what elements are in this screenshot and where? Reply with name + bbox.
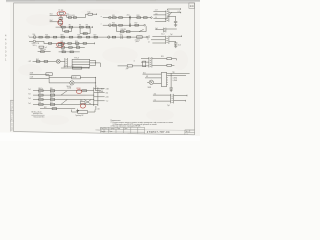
transformer T8 winding right (173, 94, 175, 104)
wire stub a (30, 73, 50, 75)
transformer T8 core ticks (172, 95, 173, 103)
svg-text:4Т0Р07-787-04: 4Т0Р07-787-04 (147, 130, 170, 134)
svg-text:Изм: Изм (101, 128, 104, 130)
resistor R12 (119, 17, 123, 19)
transformer T7 winding left (148, 57, 150, 68)
svg-text:≈15В: ≈15В (105, 88, 109, 90)
wire vertical node B (60, 23, 62, 27)
wire ML vertical (48, 75, 50, 83)
wire K2 pin bus (95, 60, 97, 65)
wire T8 sec1 (174, 95, 187, 97)
wire T3 pin2 (153, 14, 166, 16)
resistor R41 (70, 51, 73, 53)
svg-text:Вх2: Вх2 (50, 20, 53, 22)
resistor R44 (39, 90, 43, 92)
ground GND3 (174, 46, 177, 48)
capacitor C6 (174, 43, 177, 44)
svg-text:реле: реле (136, 41, 139, 43)
wire T8 sec2 (174, 100, 186, 102)
svg-text:R52: R52 (44, 107, 47, 109)
svg-text:Тр3: Тр3 (167, 105, 170, 107)
svg-text:R50: R50 (38, 102, 41, 104)
svg-text:№ докум.: № докум. (109, 128, 115, 130)
svg-text:≈6,3: ≈6,3 (105, 92, 108, 94)
svg-text:≈36: ≈36 (155, 17, 158, 19)
wire T6 pin1 (152, 36, 165, 38)
svg-text:Подп. и дата: Подп. и дата (12, 100, 14, 110)
terminal tick row3 (92, 26, 94, 28)
lamp H1 (56, 60, 60, 64)
svg-text:РЭС-9: РЭС-9 (74, 58, 79, 60)
resistor R16 (119, 24, 123, 26)
wire row3 bus (56, 26, 93, 28)
label dash (31, 114, 44, 116)
wire T7 sec1 (152, 58, 167, 60)
wire T3 pin3 (153, 18, 166, 20)
wire F5 stub (29, 40, 33, 42)
resistor R8 (86, 26, 90, 28)
stamp table top line (100, 126, 144, 128)
resistor R56 (82, 90, 87, 92)
svg-text:R6: R6 (69, 25, 71, 27)
svg-text:R47 1к: R47 1к (50, 93, 55, 95)
svg-text:≈127: ≈127 (155, 10, 158, 12)
red annotation ellipse A (57, 11, 66, 17)
svg-text:прибора сети: прибора сети (33, 113, 42, 115)
resistor R10 (83, 33, 87, 35)
svg-text:560: 560 (80, 100, 83, 102)
capacitor C4 (174, 21, 177, 22)
relay K1 (137, 36, 143, 38)
resistor R45 (50, 90, 54, 92)
resistor R36 (61, 47, 64, 49)
resistor R37 (69, 47, 72, 49)
wire M2 row2 (36, 40, 45, 42)
terminal tick T8 sec1 (186, 95, 188, 97)
wire T6 sec2 (169, 42, 176, 43)
wire B1 row4 (33, 103, 94, 105)
svg-text:R23: R23 (61, 35, 64, 37)
resistor R13 (137, 17, 141, 19)
frame left border (13, 3, 15, 132)
wire T7 pin2 (141, 61, 149, 63)
wire R54 out (172, 64, 175, 66)
arrow tap T3 (165, 12, 172, 20)
connector XP1 left rail (93, 87, 95, 106)
svg-text:≈1,2: ≈1,2 (153, 99, 156, 101)
transformer T7 core ticks (150, 58, 151, 66)
gray scanner edge band top (6, 0, 200, 2)
resistor R51 (50, 103, 54, 105)
wire T3 sec1 (169, 12, 181, 14)
wire T3 pin4 (155, 21, 166, 23)
svg-text:Положение Вкл: Положение Вкл (33, 117, 44, 119)
wire T3 pin1 (153, 10, 166, 12)
svg-text:R42: R42 (36, 59, 39, 61)
capacitor C2 (128, 16, 130, 20)
capacitor C2 plate2 (130, 16, 132, 20)
svg-text:R15: R15 (112, 23, 115, 25)
wire bracket2 drop (80, 28, 90, 34)
switch box S5 (78, 111, 88, 114)
wire T3 sec2 (169, 16, 176, 21)
resistor R33 (68, 42, 71, 44)
wire R53 drop (176, 59, 178, 61)
svg-text:Тумблер В2: Тумблер В2 (75, 115, 83, 117)
wire M2 row1 right (104, 36, 146, 38)
switch box S1 (46, 73, 52, 76)
svg-text:Разраб.: Разраб. (101, 131, 106, 133)
choke L2 (127, 65, 132, 67)
resistor R27 (94, 36, 97, 38)
resistor R46 (39, 94, 43, 96)
svg-text:≈6,3: ≈6,3 (153, 93, 156, 95)
resistor R48 (39, 99, 43, 101)
wire T7 pin3 stub (118, 65, 128, 67)
svg-text:прд: прд (172, 72, 174, 74)
fuse F1 (33, 36, 36, 39)
lamp H1 cross (57, 60, 60, 63)
svg-text:R39 10к: R39 10к (40, 49, 46, 51)
svg-text:R2 1,0 R3: R2 1,0 R3 (68, 15, 75, 17)
resistor R1b (88, 13, 92, 15)
wire cross X b (84, 100, 91, 105)
svg-text:20,0: 20,0 (178, 45, 181, 47)
wire M2 row1 (29, 36, 104, 38)
svg-text:МЛТ: МЛТ (83, 33, 86, 35)
resistor R18 (120, 31, 124, 33)
transformer T6 core ticks (166, 37, 167, 42)
wire ML right link (96, 90, 100, 92)
resistor R54 (167, 64, 172, 66)
terminal X3 (144, 24, 146, 26)
lamp H2 cross (70, 81, 73, 84)
resistor R28 (112, 36, 115, 38)
wire XP1 top stub (95, 85, 97, 87)
wire T7 sec2 (152, 64, 167, 66)
terminal X2 (151, 17, 153, 19)
svg-text:R7: R7 (79, 25, 81, 27)
lamp H3 (149, 80, 153, 84)
stamp table verticals (100, 127, 144, 133)
wire B1 row5 (40, 108, 75, 110)
lamp H3 cross (150, 81, 153, 84)
svg-text:8,2к: 8,2к (88, 12, 91, 14)
resistor R35 (83, 42, 86, 44)
svg-text:Гн4: Гн4 (28, 103, 31, 105)
wire R3 line1 (143, 73, 162, 75)
svg-text:20–4: 20–4 (161, 33, 165, 35)
svg-text:R17: R17 (135, 23, 138, 25)
terminal tick choke (88, 67, 90, 69)
wire T6 pin3 (152, 42, 165, 44)
wire row2 left (50, 21, 59, 23)
svg-text:R40: R40 (62, 49, 65, 51)
svg-text:20,0: 20,0 (127, 15, 130, 17)
transformer T6 winding left (164, 36, 166, 44)
wire link C2-C3 (129, 19, 131, 23)
choke L1 (72, 67, 81, 69)
svg-text:R21: R21 (45, 35, 48, 37)
svg-text:R45: R45 (50, 88, 53, 90)
resistor R15 (113, 24, 117, 26)
resistor R2 (68, 17, 71, 19)
resistor R9 (65, 31, 69, 33)
wire H3 out (154, 83, 162, 85)
right small box outline (185, 130, 195, 135)
resistor R40 (62, 51, 65, 53)
regulator box U1 (72, 76, 81, 79)
capacitor C3 (128, 23, 130, 27)
transformer T7 winding right (151, 57, 153, 68)
resistor R11 (113, 17, 117, 19)
resistor R53 (167, 58, 172, 60)
svg-text:б1: б1 (147, 39, 149, 41)
svg-text:R13: R13 (137, 15, 140, 17)
svg-text:R44 2к: R44 2к (38, 88, 43, 90)
relay block K2 (72, 59, 90, 67)
wire XP1 out2 (98, 92, 105, 94)
resistor R22 (53, 36, 56, 38)
svg-text:50 Гц: 50 Гц (33, 45, 37, 47)
wire M2 row4 (38, 51, 51, 53)
wire T2 bracket (117, 26, 147, 32)
svg-text:ГрЗ: ГрЗ (44, 47, 47, 49)
wire ML low (49, 82, 70, 84)
transformer T8 winding left (170, 94, 172, 104)
terminal tick sec0 (180, 8, 182, 10)
svg-text:R38: R38 (76, 45, 79, 47)
wire H2 out (74, 82, 96, 84)
svg-text:14г: 14г (190, 4, 194, 8)
wire T3 sec0 (167, 9, 180, 10)
svg-text:Копир.: Копир. (96, 130, 101, 132)
svg-text:Взам. инв.: Взам. инв. (12, 122, 14, 130)
right margin (195, 2, 200, 136)
red annotation ellipse D (76, 90, 81, 94)
svg-text:Лист: Лист (185, 131, 188, 133)
svg-text:Лист: Лист (105, 128, 108, 130)
switch S2 diagonal (139, 29, 144, 31)
wire R3 line2 (145, 77, 161, 79)
wire ML mid (49, 76, 72, 78)
svg-text:−1,2: −1,2 (105, 101, 108, 103)
terminal X5 (99, 90, 100, 91)
wire C4 lead (175, 23, 177, 25)
resistor R50 (39, 103, 43, 105)
switch S3 diagonal (61, 91, 67, 95)
red annotation ellipse E (80, 104, 85, 108)
wire stub b (30, 77, 50, 79)
resistor R32 (61, 42, 64, 44)
svg-text:ж: ж (101, 16, 102, 18)
ground GND1 (174, 25, 177, 27)
transformer T5 winding right (66, 58, 68, 67)
resistor R23 (61, 36, 64, 38)
top-right zone box (189, 3, 195, 8)
transformer T4 core ticks (164, 29, 165, 32)
wire K2 pin2 (90, 62, 101, 64)
svg-text:R48: R48 (38, 97, 41, 99)
wire choke row (61, 67, 89, 69)
wire X4 tail (148, 36, 150, 38)
resistor R57 (80, 102, 85, 104)
resistor R7 (80, 26, 84, 28)
capacitor C1 (inside red ellipse) (59, 13, 63, 15)
svg-text:≈110: ≈110 (155, 13, 158, 15)
capacitor C5 (121, 35, 122, 39)
junction dots (60, 14, 63, 17)
terminal X4 (146, 36, 148, 38)
svg-text:R25: R25 (78, 35, 81, 37)
capacitor C7 (170, 88, 173, 89)
wire M2 row3 (56, 46, 85, 48)
switch S4 diagonal (61, 100, 67, 105)
wire row1 right step (63, 15, 81, 17)
connector XP2 body (161, 72, 166, 86)
wire T8 pin1 (153, 94, 171, 96)
resistor R5 (62, 26, 66, 28)
resistor R49 (50, 99, 54, 101)
svg-text:6,3: 6,3 (178, 11, 180, 13)
fuse F3 (109, 24, 112, 27)
resistor R6 (69, 26, 73, 28)
wire H1 to T5 (60, 60, 65, 62)
page background (0, 0, 200, 141)
wire XP1 out4 (98, 100, 105, 102)
wire B1 row3 (33, 99, 94, 101)
wire K2 pin3 (90, 65, 96, 67)
resistor R25 (78, 36, 81, 38)
transformer T3 winding left (165, 10, 167, 21)
lamp H2 (70, 81, 74, 85)
ground GND4 (170, 89, 173, 92)
terminal tick T8 sec2 (185, 100, 187, 102)
wire T4 pin right (166, 28, 177, 30)
svg-text:R18 R19: R18 R19 (121, 29, 127, 31)
svg-text:R11: R11 (112, 15, 115, 17)
resistor R24 (69, 36, 72, 38)
svg-text:R8: R8 (86, 25, 88, 27)
wire H3 feed (147, 81, 149, 83)
left service column dividers (10, 100, 13, 121)
svg-text:+250: +250 (105, 97, 109, 99)
resistor R47 (50, 94, 54, 96)
svg-text:20,0: 20,0 (120, 34, 123, 36)
wire K2 drop (99, 63, 101, 67)
wire T6 pin2 (151, 39, 165, 41)
wire T7 pin1 (141, 57, 149, 59)
resistor R4a (59, 18, 63, 20)
white margin below bottom frame (0, 132, 200, 141)
transformer T3 core ticks (167, 12, 168, 21)
wire XP1 bottom drop (95, 106, 97, 110)
resistor R31 (red circled) (58, 44, 62, 46)
svg-text:Пр1: Пр1 (33, 34, 36, 36)
wire S5 right (88, 110, 95, 112)
connector XP1 right rail (97, 87, 99, 106)
wire T4 pin left (155, 29, 163, 31)
left service column outer line (9, 100, 11, 131)
transformer T4 winding right (165, 28, 167, 33)
transformer T5 core ticks (66, 59, 67, 65)
wire XP2 out1 (168, 72, 190, 74)
wire XP2 out2 (168, 75, 186, 77)
svg-text:Др1: Др1 (155, 28, 158, 30)
ground GND2 (76, 109, 79, 112)
fuse F5 (33, 40, 35, 42)
svg-text:Ш2: Ш2 (146, 76, 148, 78)
resistor R42 (36, 61, 40, 63)
wire ML right bus (95, 77, 97, 90)
capacitor C3 plate2 (130, 23, 132, 27)
stamp table mid line (100, 129, 144, 131)
resistor R52 (52, 108, 57, 110)
wire XP1 out3 (98, 96, 105, 98)
resistor R3 (73, 17, 76, 19)
svg-text:≈127: ≈127 (28, 61, 31, 63)
resistor R21 (46, 36, 49, 38)
wire U1 out (80, 76, 95, 78)
wire M2 row4b (59, 51, 80, 53)
svg-text:Бл1: Бл1 (143, 72, 146, 74)
svg-text:Гн2: Гн2 (28, 94, 31, 96)
resistor R19 (126, 31, 130, 33)
terminal tick row2 (94, 42, 96, 44)
wire row2 link (43, 41, 45, 43)
frame top border (14, 2, 195, 4)
resistor R39 (41, 51, 45, 53)
resistor R38 (76, 47, 79, 49)
resistor R17 (135, 24, 139, 26)
transformer T5 winding left (64, 58, 66, 67)
connector XP2 pin ticks (167, 73, 168, 84)
wire B1 row2 (33, 94, 94, 96)
frame right border (194, 3, 196, 135)
terminal tick sec1 (180, 12, 182, 14)
fuse F4 (108, 36, 110, 38)
svg-text:в1: в1 (148, 42, 150, 44)
svg-text:R53: R53 (161, 56, 164, 58)
wire C6 lead (175, 44, 177, 46)
wire T2 row1 (103, 17, 151, 19)
svg-text:Гн1: Гн1 (28, 89, 31, 91)
wire XP2 drop (170, 73, 172, 88)
red annotation ellipse B (58, 20, 63, 26)
wire T7 pin3 (132, 65, 149, 67)
wire M2 row2b (44, 42, 95, 44)
wire vertical node A (60, 15, 62, 21)
wire S5 left (72, 110, 78, 112)
resistor R34 (76, 42, 79, 44)
white margin left of frame (0, 0, 10, 132)
svg-text:Тр2: Тр2 (170, 34, 173, 36)
resistor R26 (86, 36, 89, 38)
wire bracket1 left drop (63, 28, 72, 31)
number cell top line (145, 129, 195, 132)
svg-text:R51: R51 (50, 102, 53, 104)
wire T8 pin2 (153, 100, 171, 102)
winding W1 (143, 61, 146, 67)
fuse F2 (109, 16, 112, 19)
wire R53 out (172, 58, 177, 60)
svg-text:Гн3: Гн3 (28, 98, 31, 100)
wire M3 row (33, 60, 57, 62)
svg-text:≈6,3В: ≈6,3В (29, 73, 33, 75)
wire XP1 out1 (98, 88, 105, 90)
svg-text:Бл2: Бл2 (101, 89, 104, 91)
transformer T4 winding left (162, 28, 164, 33)
